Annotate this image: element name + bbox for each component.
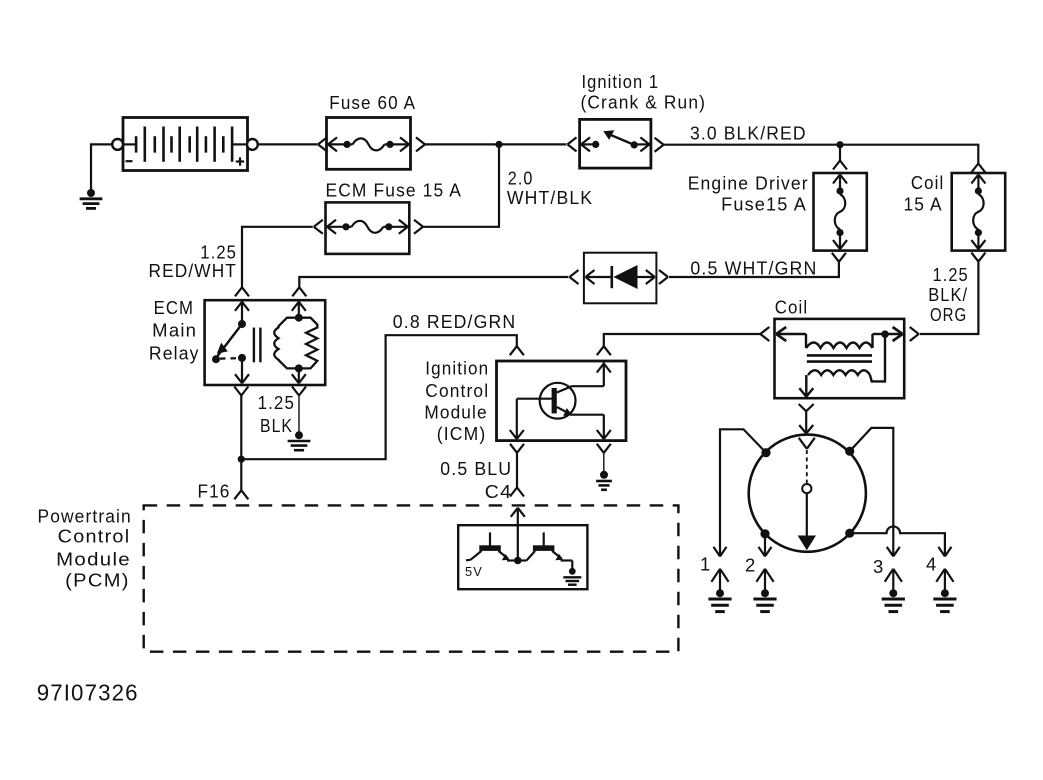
label ECM Main Relay [149, 297, 200, 363]
ground G4 (5V driver) [563, 568, 581, 585]
label Engine Driver Fuse15 A [688, 172, 809, 214]
svg-text:97I07326: 97I07326 [37, 679, 139, 705]
svg-text:ECM Fuse 15 A: ECM Fuse 15 A [326, 179, 463, 200]
svg-text:Control: Control [425, 380, 489, 401]
svg-text:3: 3 [873, 556, 885, 577]
wire distributor terminal to spark plug 1 [714, 429, 767, 556]
label 3.0 BLK/RED [690, 123, 807, 144]
svg-text:C4: C4 [485, 481, 512, 502]
svg-text:ECM: ECM [154, 297, 195, 318]
wire battery positive to Fuse 60 A, connector [258, 137, 327, 151]
svg-text:Engine Driver: Engine Driver [688, 172, 809, 193]
wire node B to Engine Driver fuse, connector [833, 145, 847, 170]
fuse F4 ECM Fuse 15 A [326, 202, 410, 254]
svg-text:3.0 BLK/RED: 3.0 BLK/RED [690, 123, 807, 144]
svg-text:0.5 BLU: 0.5 BLU [440, 458, 512, 479]
ground G2 (ECM relay coil) [288, 431, 311, 450]
wire relay output to node F16, connector [234, 387, 248, 500]
fuse F1 Fuse 60 A [327, 118, 411, 170]
wire 2.0 WHT/BLK, ECM fuse to node A, connector [414, 144, 499, 233]
svg-text:15 A: 15 A [904, 193, 943, 214]
relay K1 ECM Main Relay [205, 300, 326, 385]
wire ICM to ignition coil primary, connectors [597, 327, 770, 355]
label 1.25 BLK/ORG [928, 264, 969, 325]
fuse F3 Coil 15 A [952, 173, 1006, 251]
svg-text:2: 2 [745, 555, 757, 576]
distributor with rotor [749, 435, 866, 552]
svg-text:BLK/: BLK/ [928, 284, 968, 305]
svg-text:Powertrain: Powertrain [38, 506, 132, 527]
IC U1 Ignition Control Module (ICM) with transistor Q1 [497, 361, 627, 441]
label 1.25 BLK [258, 392, 295, 436]
label 1.25 RED/WHT [149, 241, 238, 281]
svg-text:(ICM): (ICM) [437, 423, 487, 444]
label 0.5 WHT/GRN [690, 258, 817, 279]
wire Fuse 60 A to Ignition 1, junction node A, connector [416, 137, 577, 151]
spark plug 2 [756, 569, 773, 591]
svg-text:Relay: Relay [149, 342, 200, 363]
label cylinder 3 [873, 556, 885, 577]
label 0.8 RED/GRN [393, 311, 517, 332]
wire battery negative to chassis ground [91, 144, 113, 192]
wire distributor terminal to spark plug 3 [850, 428, 900, 557]
svg-text:0.5 WHT/GRN: 0.5 WHT/GRN [690, 258, 817, 279]
label Coil 15 A [904, 172, 945, 215]
label ECM Fuse 15 A [326, 179, 463, 200]
fuse F2 Engine Driver Fuse 15 A [814, 173, 867, 251]
ground G7 (spark plug 3) [882, 589, 905, 611]
label cylinder 4 [926, 554, 938, 575]
svg-text:Coil: Coil [911, 172, 944, 193]
svg-text:1.25: 1.25 [933, 264, 969, 285]
svg-text:(Crank & Run): (Crank & Run) [581, 91, 707, 112]
label drawing number 97I07326 [37, 679, 139, 705]
spark plug 1 [711, 569, 728, 591]
svg-text:WHT/BLK: WHT/BLK [507, 187, 593, 208]
wire 0.8 RED/GRN, node F16 to ICM, connector [241, 335, 524, 459]
label 2.0 WHT/BLK [507, 168, 593, 209]
transformer T1 ignition coil [775, 319, 905, 398]
svg-text:Coil: Coil [775, 297, 809, 318]
label Powertrain Control Module (PCM) [38, 506, 132, 591]
svg-text:Ignition 1: Ignition 1 [582, 71, 660, 92]
wire 1.25 BLK/ORG, Coil 15 A fuse to ignition coil, connectors [910, 253, 986, 341]
diode D1 [584, 253, 657, 304]
5V reference driver circuit in PCM [458, 525, 587, 589]
wire distributor terminal to spark plug 4 (with wire hop) [854, 526, 951, 556]
svg-text:BLK: BLK [260, 415, 293, 436]
wire ignition coil secondary to distributor, connector [799, 404, 814, 434]
label 0.5 BLU and pin C4 [440, 458, 512, 502]
wire ICM emitter to ground, connector [597, 444, 611, 471]
svg-text:2.0: 2.0 [508, 168, 534, 189]
ground G1 (battery negative) [80, 189, 103, 208]
label F16 [198, 480, 231, 501]
svg-text:Fuse 60 A: Fuse 60 A [329, 92, 416, 113]
wire 1.25 BLK relay coil to ground, connector [292, 387, 306, 433]
label cylinder 1 [700, 554, 712, 575]
ground G3 (ICM) [596, 471, 612, 490]
svg-text:Fuse15 A: Fuse15 A [721, 193, 807, 214]
svg-text:(PCM): (PCM) [65, 570, 130, 591]
svg-text:Main: Main [152, 320, 197, 341]
ground G5 (spark plug 1) [708, 589, 731, 611]
label Ignition 1 (Crank &amp; Run) [581, 71, 707, 112]
ground G8 (spark plug 4) [933, 589, 956, 611]
spark plug 3 [885, 569, 902, 591]
wire 3.0 BLK/RED, junction node B, connector [655, 138, 986, 173]
battery B1 [112, 118, 258, 171]
wire 0.5 BLU, ICM to PCM pin C4, connectors [510, 444, 524, 497]
svg-text:0.8 RED/GRN: 0.8 RED/GRN [393, 311, 517, 332]
svg-text:RED/WHT: RED/WHT [149, 260, 238, 281]
svg-text:1.25: 1.25 [200, 241, 237, 262]
wire distributor terminal to spark plug 2 [759, 534, 772, 557]
svg-text:4: 4 [926, 554, 938, 575]
switch S1 Ignition 1 [580, 119, 651, 168]
svg-text:Module: Module [56, 549, 131, 570]
svg-text:ORG: ORG [930, 304, 967, 325]
wire diode to ECM Main Relay coil, connector [292, 270, 578, 296]
label Ignition Control Module (ICM) [424, 358, 489, 445]
svg-text:Module: Module [424, 401, 487, 422]
svg-text:1.25: 1.25 [258, 392, 295, 413]
label 5V [465, 564, 483, 579]
svg-text:5V: 5V [465, 564, 483, 579]
label Coil [775, 297, 809, 318]
label Fuse 60 A [329, 92, 416, 113]
svg-text:Ignition: Ignition [425, 358, 489, 379]
label cylinder 2 [745, 555, 757, 576]
svg-text:1: 1 [700, 554, 712, 575]
svg-text:Control: Control [58, 526, 131, 547]
wire 1.25 RED/WHT, ECM fuse to relay, connectors [235, 220, 323, 296]
spark plug 4 [936, 569, 953, 591]
svg-text:F16: F16 [198, 480, 231, 501]
wire PCM pin C4 to 5V driver, junction [511, 508, 525, 565]
module PCM box (dashed) [144, 505, 679, 651]
ground G6 (spark plug 2) [753, 589, 776, 611]
wire 0.5 WHT/GRN, Engine Driver fuse to diode, connectors [659, 253, 846, 284]
